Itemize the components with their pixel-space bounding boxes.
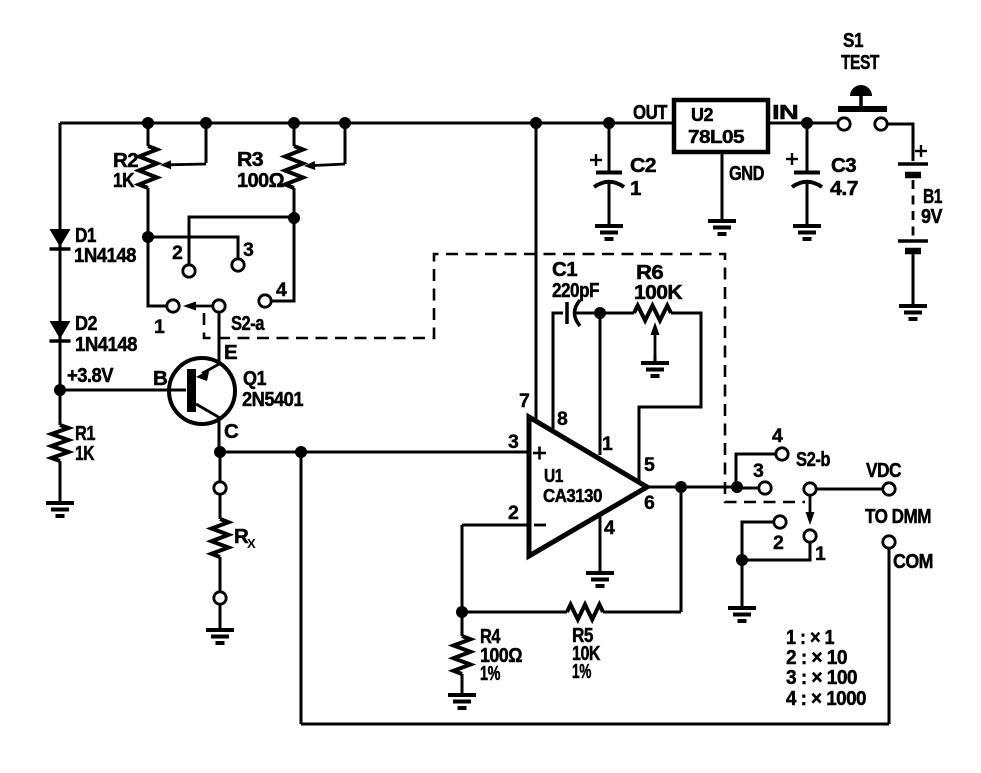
node collector-to-bottom-rail junction [295, 446, 307, 458]
wire pin 2 stub [462, 524, 529, 527]
battery B1 dashed middle [912, 180, 915, 237]
wire R2 bottom to S2-a node [147, 188, 150, 237]
node rail-R2 wiper [200, 117, 212, 129]
ground below C3 [793, 226, 821, 239]
wire left vertical from rail to +3.8V node [59, 123, 62, 390]
wire collector junction to op-amp + input [220, 451, 529, 454]
node output junction [675, 481, 687, 493]
wire node down to pin 1 [599, 313, 602, 455]
wire top +9V rail [60, 122, 674, 125]
ground below B1 [899, 306, 927, 319]
ground below S2-b [728, 608, 756, 621]
ground below R4 [448, 695, 476, 708]
svg-text:1: 1 [602, 433, 613, 455]
pushbutton S1 cap [850, 85, 872, 96]
wire Rx top terminal to Rx [219, 494, 222, 519]
wiper arrow S2-b pole to contact 1 [806, 496, 815, 525]
svg-text:TEST: TEST [841, 51, 880, 74]
transistor Q1 emitter stroke [202, 363, 221, 374]
wire Rx bottom terminal to ground [219, 604, 222, 629]
svg-text:OUT: OUT [633, 101, 668, 124]
wire node to S2-a contact 3 [148, 237, 238, 258]
S2-b contact 2 [774, 516, 786, 528]
wire R3 wiper drop [344, 123, 347, 164]
svg-text:1N4148: 1N4148 [75, 333, 137, 356]
terminal COM [883, 536, 895, 548]
node C1-R6-pin1 [594, 307, 606, 319]
wiper arrow R6 (grounded) [651, 322, 660, 358]
wire node down to S2-a contact 1 [148, 237, 166, 306]
wire U2 GND pin [721, 152, 724, 220]
battery B1 plate short 1 [905, 172, 921, 179]
wire R6 wiper to ground [654, 355, 657, 362]
wire R4 to ground [461, 674, 464, 694]
S2-b contact 4 [776, 448, 788, 460]
svg-text:3: 3 [753, 460, 764, 482]
svg-text:220pF: 220pF [552, 279, 599, 302]
wire pin 7 to +5V rail [535, 123, 538, 419]
battery B1 plate long 2 [898, 239, 928, 243]
transistor Q1 body circle [169, 358, 235, 424]
svg-text:3: 3 [243, 239, 254, 261]
svg-text:1K: 1K [113, 169, 135, 192]
capacitor C2 plate 1 [596, 171, 622, 175]
resistor RX (unknown) [212, 519, 229, 557]
wire R6 to pin 5 [639, 313, 701, 483]
S2-b contact 3 [759, 482, 771, 494]
resistor R6 potentiometer [634, 306, 671, 321]
S2-a pole [213, 300, 225, 312]
node R3-bottom junction [288, 212, 300, 224]
pushbutton S1 bar [838, 106, 887, 112]
node rail-R3 wiper [339, 117, 351, 129]
capacitor C3 plate 1 [794, 171, 820, 175]
resistor R4 [454, 636, 471, 674]
wiper arrow S2-a pole to contact 1 [183, 302, 216, 311]
S2-a contact 2 [183, 265, 195, 277]
battery B1 plate short 2 [905, 248, 921, 255]
terminal Rx top [214, 482, 226, 494]
ground below U2 [708, 221, 736, 234]
wire pin 4 to ground [599, 515, 602, 572]
svg-text:4.7: 4.7 [830, 177, 858, 200]
svg-text:8: 8 [557, 408, 568, 430]
S1 contact right [875, 118, 887, 130]
node rail-R2 top [142, 117, 154, 129]
svg-text:CA3130: CA3130 [543, 485, 602, 506]
op-amp U1 triangle [529, 417, 647, 556]
svg-text:1%: 1% [480, 662, 500, 685]
resistor R5 [567, 605, 603, 620]
svg-text:1K: 1K [75, 442, 95, 465]
wire S1 to battery [887, 124, 913, 161]
wire R3 bottom to S2-a contact net [293, 188, 296, 218]
svg-text:2: 2 [172, 242, 183, 264]
ground below R1 [46, 503, 74, 516]
polarity + of B1 [915, 145, 927, 157]
svg-text:VDC: VDC [866, 459, 902, 482]
svg-text:6: 6 [644, 492, 655, 514]
node rail-R3 top [288, 117, 300, 129]
wire R3 node down to S2-a contact 4 [272, 218, 294, 301]
node IN-C3 [801, 117, 813, 129]
wire S2-b pole to VDC [816, 488, 882, 491]
capacitor C1 plate 2 (curved) [575, 300, 581, 326]
wire C3 to ground [806, 182, 809, 225]
resistor R2 potentiometer [139, 146, 157, 188]
wire rail to C2 [608, 123, 611, 171]
wire output [647, 486, 737, 489]
wire long drop to bottom rail [300, 452, 303, 724]
wire output down to R5 [680, 487, 683, 612]
svg-text:4: 4 [604, 517, 615, 539]
wire U2 IN to C3/S1 [768, 122, 838, 125]
capacitor C3 plate 2 (curved) [792, 182, 822, 187]
wire node to R5 [462, 611, 567, 614]
S2-b contact 1 [804, 530, 816, 542]
svg-text:D2: D2 [75, 312, 97, 335]
wire contact 3 stub [737, 487, 758, 490]
battery B1 plate long 1 [898, 162, 928, 166]
S1 contact left [838, 118, 850, 130]
svg-text:U1: U1 [544, 465, 563, 486]
node +3.8V junction [54, 384, 66, 396]
wiper arrow R2 [160, 160, 206, 169]
wire bottom rail up to COM [888, 549, 891, 724]
svg-text:3: 3 [508, 431, 519, 453]
svg-text:3 : × 100: 3 : × 100 [786, 666, 857, 689]
wire node down to R4 [461, 612, 464, 636]
diode D1 [50, 229, 71, 249]
wire node to R6 [600, 312, 634, 315]
node rail-pin7 [530, 117, 542, 129]
svg-text:S2-a: S2-a [231, 312, 265, 335]
node S2-b ground junction [736, 554, 748, 566]
terminal Rx bottom [214, 592, 226, 604]
wire contact 2 to ground node [742, 522, 773, 558]
node output to S2-b contacts [731, 481, 743, 493]
op-amp - input sign [534, 524, 546, 527]
wire pin 2 down to R4-R5 node [461, 525, 464, 612]
wire bottom rail [301, 723, 889, 726]
pushbutton S1 stem [859, 96, 863, 106]
ground below Rx [206, 630, 234, 643]
svg-text:S1: S1 [843, 29, 863, 52]
svg-text:100Ω: 100Ω [237, 169, 284, 192]
ground below C2 [595, 226, 623, 239]
svg-text:TO DMM: TO DMM [865, 505, 931, 528]
svg-text:IN: IN [772, 101, 798, 124]
wire rail to R2 [147, 123, 150, 146]
transistor Q1 collector stroke [196, 404, 221, 419]
wire rail to R3 [293, 123, 296, 146]
diode D2 [50, 321, 71, 341]
svg-text:1: 1 [815, 543, 826, 565]
resistor R1 [52, 425, 69, 461]
wire Q1 collector down [218, 421, 221, 452]
svg-text:COM: COM [893, 550, 933, 573]
wire collector to Rx terminal [219, 452, 222, 482]
node R2-bottom junction [142, 231, 154, 243]
svg-text:5: 5 [644, 454, 655, 476]
wire R1 to ground [59, 461, 62, 502]
terminal VDC [883, 483, 895, 495]
wire base feed from +3.8V node to Q1 base [60, 389, 186, 392]
capacitor C1 plate 1 [565, 302, 569, 324]
svg-text:4 : × 1000: 4 : × 1000 [786, 687, 866, 710]
wire R2 wiper drop [205, 123, 208, 163]
svg-text:1: 1 [630, 177, 641, 200]
svg-text:78L05: 78L05 [688, 126, 744, 147]
S2-a contact 4 [259, 295, 271, 307]
S2-a contact 1 [167, 300, 179, 312]
svg-text:C: C [224, 420, 239, 443]
svg-text:X: X [247, 536, 256, 551]
svg-text:1%: 1% [572, 660, 591, 683]
svg-text:B: B [153, 367, 167, 390]
svg-text:2N5401: 2N5401 [242, 388, 303, 411]
svg-text:R3: R3 [237, 148, 263, 171]
regulator U2 box [674, 100, 768, 152]
wire +3.8V node down to R1 [59, 390, 62, 425]
wire pin 8 up to C1 [553, 313, 563, 429]
svg-text:1N4148: 1N4148 [74, 244, 136, 267]
wiper arrow R3 [304, 161, 345, 170]
S2-b pole [804, 483, 816, 495]
S2-a contact 3 [232, 259, 244, 271]
wire Rx to bottom terminal [219, 557, 222, 592]
ground below R6 wiper [641, 363, 669, 376]
wire S2-a contact 2 up and right to R3 node [189, 217, 294, 265]
wire ground node down [741, 560, 744, 607]
wire C1 to node [576, 312, 594, 315]
node rail-C2 [603, 117, 615, 129]
wire ground node to contact 1 [742, 543, 810, 560]
svg-text:100K: 100K [634, 281, 683, 304]
svg-text:1: 1 [154, 316, 165, 338]
transistor Q1 emitter arrow (PNP) [196, 370, 210, 382]
node R4-R5 junction [456, 606, 468, 618]
capacitor C2 plate 2 (curved) [594, 182, 624, 187]
resistor R3 potentiometer [285, 146, 303, 188]
svg-text:C2: C2 [630, 154, 656, 177]
transistor Q1 base bar [187, 369, 196, 412]
wire R5 to output drop [603, 611, 681, 614]
wire C2 to ground [608, 182, 611, 225]
dashed mechanical coupling S2-a to S2-b box [204, 254, 805, 502]
ground below U1 pin 4 [586, 573, 614, 586]
svg-text:C1: C1 [552, 258, 577, 281]
svg-text:2: 2 [508, 502, 519, 524]
svg-text:Q1: Q1 [243, 367, 266, 390]
op-amp + input sign [533, 447, 546, 460]
svg-text:7: 7 [519, 390, 529, 412]
node collector junction [214, 446, 226, 458]
svg-text:S2-b: S2-b [796, 448, 830, 471]
svg-text:9V: 9V [921, 205, 943, 228]
svg-text:2: 2 [773, 532, 784, 554]
svg-text:GND: GND [729, 162, 764, 185]
polarity + of C3 [786, 153, 798, 165]
polarity + of C2 [590, 154, 602, 166]
svg-text:+3.8V: +3.8V [67, 364, 114, 387]
svg-text:U2: U2 [691, 104, 713, 125]
svg-text:E: E [224, 341, 237, 364]
wire node to C3 [806, 123, 809, 171]
svg-text:4: 4 [772, 425, 783, 447]
wire battery to ground [912, 254, 915, 305]
wire S2-a pole to Q1 emitter [218, 312, 221, 362]
svg-text:4: 4 [276, 279, 287, 301]
svg-text:C3: C3 [831, 154, 856, 177]
wire contact 4 to output node [736, 454, 775, 482]
